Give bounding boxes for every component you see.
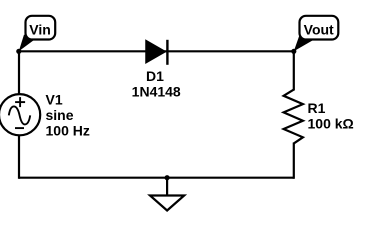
flag Vout: [294, 16, 339, 52]
wire top horizontal: [19, 50, 294, 52]
wire bottom horizontal: [19, 177, 294, 179]
flag Vin: [19, 16, 55, 52]
resistor R1: [284, 90, 303, 144]
ground: [150, 178, 184, 211]
svg-text:100 kΩ: 100 kΩ: [308, 116, 354, 132]
svg-text:Vin: Vin: [29, 21, 51, 37]
wire left vertical: [18, 51, 20, 95]
svg-text:1N4148: 1N4148: [132, 83, 181, 99]
svg-text:V1: V1: [46, 92, 63, 108]
diode D1: [146, 40, 167, 65]
svg-text:D1: D1: [146, 68, 164, 84]
wire right vertical lower: [293, 143, 295, 179]
wire left vertical lower: [18, 135, 20, 179]
svg-text:R1: R1: [308, 100, 326, 116]
svg-text:Vout: Vout: [304, 21, 334, 37]
node Vout junction: [291, 49, 296, 54]
node ground junction: [165, 175, 170, 180]
svg-text:sine: sine: [46, 107, 74, 123]
voltage source V1: [0, 94, 40, 135]
wire right vertical upper: [293, 51, 295, 90]
node Vin junction: [16, 49, 21, 54]
svg-text:100 Hz: 100 Hz: [46, 123, 90, 139]
